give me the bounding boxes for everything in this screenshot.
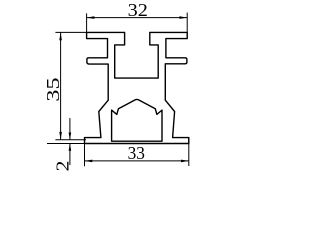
dimension 32: right extension line — [186, 13, 188, 33]
dimension 35: top arrowhead — [59, 32, 62, 40]
dimension 33: left extension line — [84, 144, 86, 166]
extrusion profile outer outline (top T-slot channel, side C-slots, legs and bottom foot flange) — [85, 32, 189, 143]
dimension 2: upper leader line — [69, 118, 71, 140]
dimension 32: dimension line — [87, 17, 188, 19]
dimension 33: left arrowhead — [85, 160, 93, 163]
dimension 2: upper arrowhead (pointing down) — [69, 133, 72, 140]
svg-text:33: 33 — [128, 143, 146, 163]
svg-text:32: 32 — [128, 0, 148, 20]
dimension 33: right arrowhead — [181, 160, 189, 163]
inner cavity: gabled roof with relief notches, leg inner walls and floor web — [112, 99, 162, 141]
dimension 35: top extension line — [55, 31, 87, 33]
dimension 2: lower arrowhead (pointing up) — [69, 144, 72, 151]
dimension 35: dimension line — [60, 32, 62, 139]
svg-text:2: 2 — [53, 161, 73, 172]
dimension 32: right arrowhead — [179, 16, 187, 19]
dimension 33: right extension line — [188, 138, 190, 166]
dimension 35: bottom extension line (shared with dimension 2) — [55, 139, 86, 141]
dimension 2: bottom extension line — [47, 143, 85, 145]
svg-text:35: 35 — [43, 77, 63, 102]
dimension 32: left arrowhead — [87, 16, 95, 19]
dimension 33: dimension line — [85, 160, 189, 162]
dimension 35: bottom arrowhead — [59, 132, 62, 140]
dimension 32: left extension line — [86, 13, 88, 33]
dimension 2: lower leader line — [69, 144, 71, 166]
